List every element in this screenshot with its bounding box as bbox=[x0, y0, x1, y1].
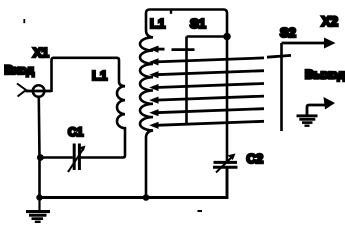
svg-text:C2: C2 bbox=[247, 151, 264, 166]
scan nub on top wire bbox=[170, 10, 172, 14]
tap 2 arrow and wire bbox=[149, 58, 264, 66]
switch S2 crossbar bbox=[267, 55, 291, 57]
svg-text:S1: S1 bbox=[190, 16, 206, 31]
inductor L1 right winding (tapped) bbox=[140, 30, 153, 138]
inductor L1 left winding bbox=[81, 82, 125, 158]
ground (right) bbox=[297, 114, 318, 127]
wire X1 down to ground bus bbox=[37, 98, 40, 198]
tap 7 arrow and wire bbox=[149, 121, 264, 129]
stray scan speck bbox=[198, 210, 203, 212]
svg-text:X1: X1 bbox=[33, 45, 49, 60]
svg-text:L1: L1 bbox=[150, 16, 165, 31]
node A junction dot bbox=[37, 154, 44, 161]
tap 1 arrow and wire bbox=[149, 46, 194, 53]
label C2 bbox=[247, 151, 264, 166]
svg-text:C1: C1 bbox=[68, 125, 84, 139]
stray scan tick bbox=[23, 19, 25, 23]
label S2 bbox=[280, 25, 296, 40]
node D junction dot bbox=[223, 33, 231, 41]
capacitor C1 (variable) bbox=[40, 144, 86, 173]
node C junction dot (L1 bottom to bus) bbox=[143, 194, 150, 201]
connector X1 bbox=[17, 84, 52, 97]
label X2 bbox=[322, 14, 339, 29]
label S1 bbox=[190, 16, 206, 31]
label Выход bbox=[305, 68, 345, 82]
node B junction dot bbox=[36, 194, 42, 200]
label X1 bbox=[33, 45, 49, 60]
switch S1 left bar bbox=[185, 37, 188, 125]
svg-text:Вход: Вход bbox=[5, 63, 35, 77]
connector X2 output arrow bbox=[282, 38, 336, 49]
ground (left) bbox=[26, 198, 50, 224]
tap 3 arrow and wire bbox=[149, 71, 264, 79]
wire node D to S1 left bar bbox=[187, 35, 228, 38]
label L1 (left winding) bbox=[92, 68, 107, 83]
output ground arrow bbox=[307, 97, 335, 115]
tap 6 arrow and wire bbox=[149, 109, 264, 117]
capacitor C2 (variable) bbox=[213, 154, 238, 173]
wire coil top to node D bbox=[146, 10, 227, 37]
switch S2 stem bbox=[280, 43, 283, 131]
wire X1 to L1 top bbox=[52, 58, 120, 92]
label L1 (right winding) bbox=[150, 16, 165, 31]
tap 5 arrow and wire bbox=[149, 96, 264, 104]
switch S1 right bar / C2 stem bbox=[226, 36, 229, 161]
svg-text:L1: L1 bbox=[92, 68, 107, 83]
label C1 bbox=[68, 125, 84, 139]
wire L1 secondary bottom lead bbox=[145, 138, 148, 198]
svg-text:Выход: Выход bbox=[305, 68, 345, 82]
wire ground bus bbox=[40, 168, 228, 197]
tap 4 arrow and wire bbox=[149, 84, 264, 92]
svg-text:S2: S2 bbox=[280, 25, 296, 40]
label Вход bbox=[5, 63, 35, 77]
svg-text:X2: X2 bbox=[322, 14, 339, 29]
